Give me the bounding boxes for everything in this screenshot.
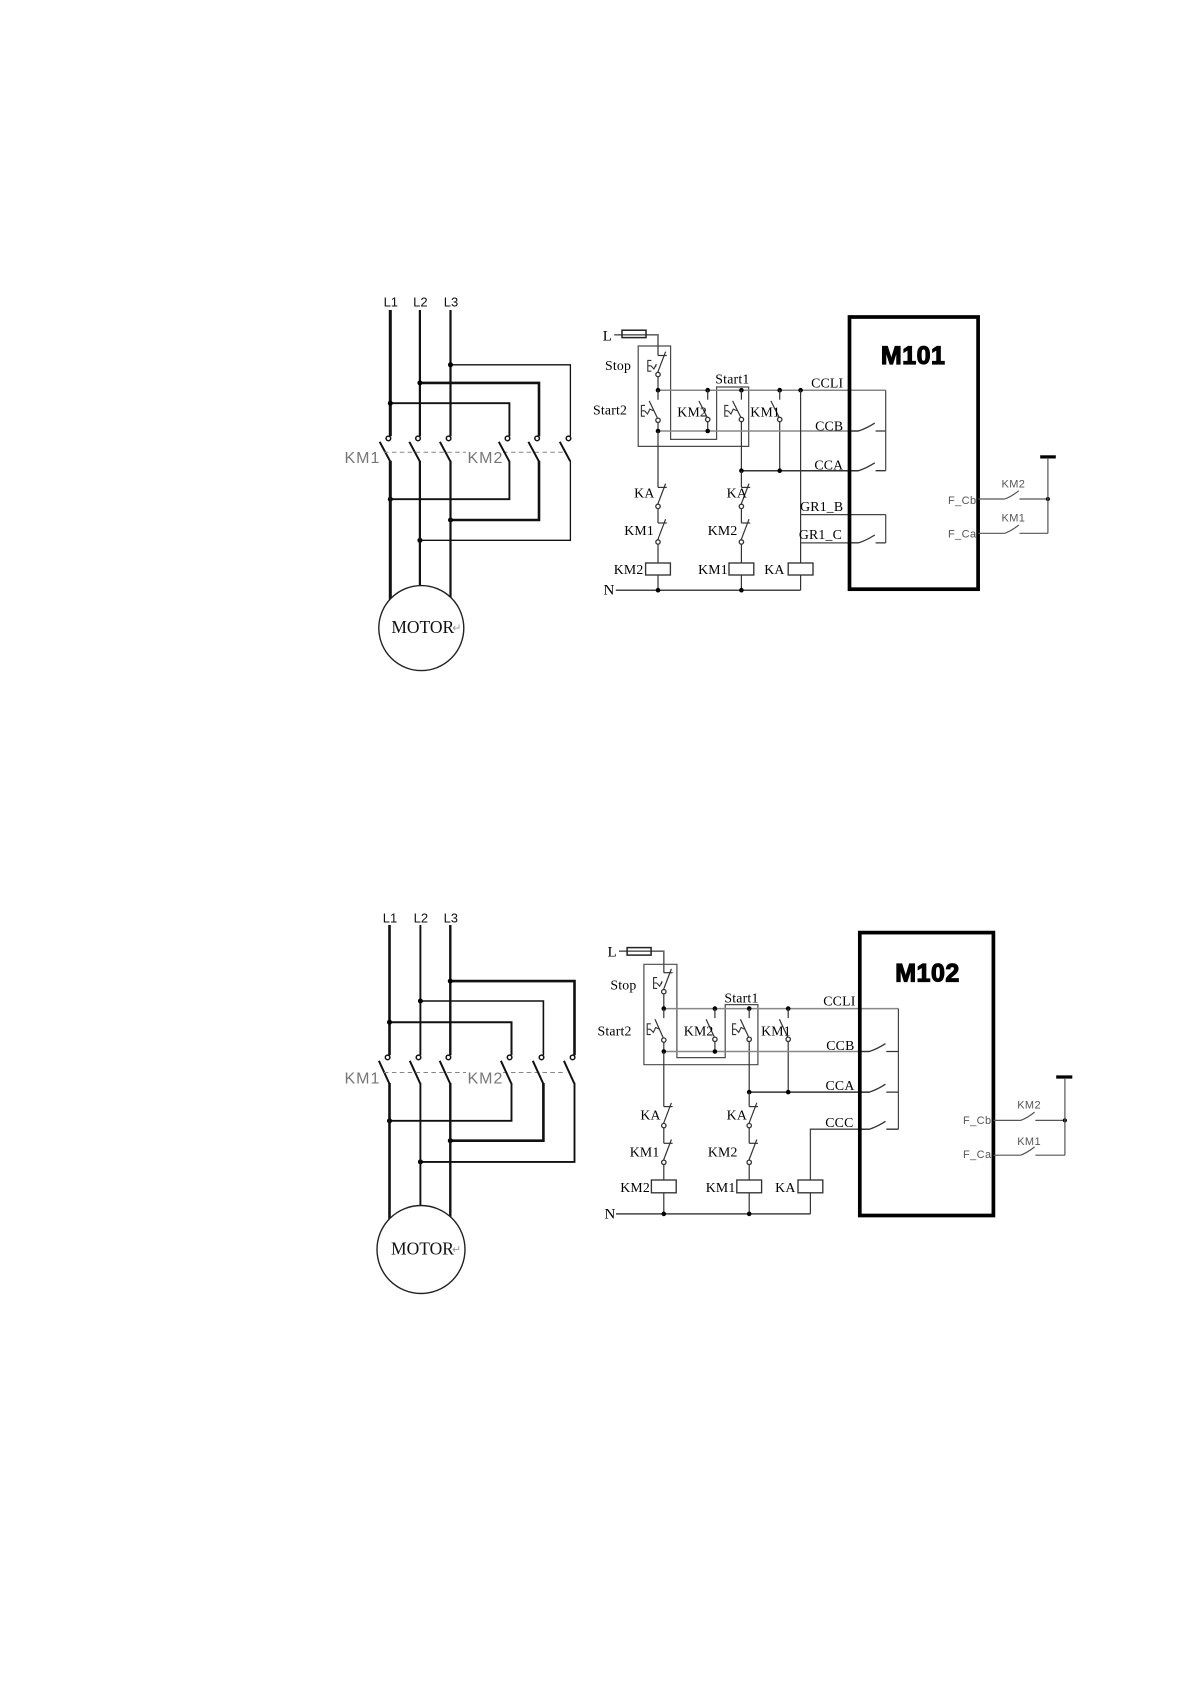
svg-text:KM1: KM1: [1017, 1136, 1041, 1148]
wire L feed (top): [614, 335, 658, 356]
controller box M102 (bottom): [860, 933, 994, 1216]
svg-text:CCA: CCA: [826, 1078, 855, 1093]
wire L1 feeder (top): [389, 310, 392, 436]
wire KM2 pole2 to W (top): [451, 461, 540, 520]
svg-text:KM2: KM2: [708, 523, 738, 538]
svg-text:KM2: KM2: [1002, 478, 1026, 490]
contact KM2 aux NO (top): [699, 390, 710, 431]
wire L1 feeder (bottom): [388, 925, 391, 1055]
switch CCB in box (top): [850, 423, 886, 431]
switch CCA in box (top): [850, 463, 886, 471]
svg-text:Start1: Start1: [724, 991, 758, 1006]
wire motor lead L1 (bottom): [388, 1083, 391, 1220]
svg-text:KM2: KM2: [468, 450, 504, 467]
svg-text:↵: ↵: [452, 622, 461, 634]
svg-text:KA: KA: [634, 486, 654, 501]
wire motor lead L1 (top): [389, 461, 392, 601]
pushbutton linkage outline (top): [638, 346, 749, 446]
svg-text:L2: L2: [414, 911, 428, 926]
svg-text:CCLI: CCLI: [823, 994, 855, 1009]
svg-text:KM1: KM1: [345, 1071, 381, 1088]
svg-text:CCC: CCC: [825, 1115, 853, 1130]
contactor KM2 main contacts (bottom): [501, 1055, 575, 1083]
switch GR1_C in box (top): [850, 535, 886, 543]
wire CCLI rail (top): [658, 389, 886, 391]
svg-text:KM1: KM1: [761, 1024, 791, 1039]
wire motor lead L2 (top): [419, 461, 421, 587]
svg-text:MOTOR: MOTOR: [391, 617, 454, 637]
switch CCC in box (bottom): [860, 1121, 899, 1129]
coil KM2 (bottom): [651, 1180, 676, 1193]
contact chain KA + KM1 NC (bottom): [662, 1052, 673, 1181]
wire L2 feeder (top): [419, 310, 421, 436]
svg-text:KA: KA: [764, 562, 784, 577]
svg-text:L2: L2: [413, 295, 427, 310]
wire CCA rail (bottom): [749, 1091, 869, 1093]
svg-text:KM1: KM1: [750, 405, 780, 420]
coil KM1 (top): [729, 563, 754, 575]
wire L feed (bottom): [619, 951, 664, 973]
wire F_Cb output (top): [978, 491, 1048, 499]
wire KM2 pole1 to U (top): [390, 461, 509, 500]
svg-text:L: L: [608, 945, 617, 961]
svg-text:KM1: KM1: [345, 450, 381, 467]
pushbutton Stop NC (bottom): [654, 969, 673, 1009]
svg-text:KA: KA: [727, 1108, 747, 1123]
wire L3 to KM2 pole3 (bottom): [450, 981, 574, 1055]
wire L2 feeder (bottom): [419, 925, 421, 1055]
svg-text:L3: L3: [444, 911, 458, 926]
wire CCC rail (bottom): [810, 1129, 869, 1180]
contact KM2 aux NO (bottom): [706, 1009, 717, 1052]
contact chain KA + KM1 NC (top): [656, 431, 667, 563]
coil KM2 (top): [646, 563, 671, 575]
wire CCB rail (bottom): [664, 1051, 870, 1053]
motor M (bottom): [377, 1206, 465, 1294]
svg-text:Start1: Start1: [715, 371, 749, 386]
wire L1 to KM2 pole1 (top): [390, 403, 509, 436]
wire CCLI rail (bottom): [664, 1008, 899, 1010]
controller box M101 (top): [850, 317, 979, 589]
pushbutton Start1 NO (top): [725, 390, 744, 471]
svg-text:N: N: [604, 583, 615, 599]
linkage dashed line (top): [384, 451, 466, 453]
svg-text:KM1: KM1: [630, 1145, 660, 1160]
wire KM2 pole3 to V (top): [420, 461, 571, 541]
svg-text:MOTOR: MOTOR: [391, 1238, 454, 1258]
svg-text:KM1: KM1: [1002, 513, 1026, 525]
svg-text:F_Cb: F_Cb: [948, 495, 977, 507]
wire KM2 pole3 to V (bottom): [420, 1083, 574, 1162]
wire motor lead L3 (top): [449, 461, 451, 599]
wire CCB rail (top): [658, 430, 859, 432]
wire N rail (bottom): [616, 1213, 810, 1215]
svg-text:KM2: KM2: [614, 562, 644, 577]
svg-text:Start2: Start2: [593, 403, 627, 418]
wire thin loop GR1 (top): [885, 515, 887, 543]
contactor KM1 main contacts (bottom): [379, 1055, 451, 1083]
svg-text:F_Cb: F_Cb: [963, 1115, 992, 1127]
svg-text:Stop: Stop: [610, 977, 636, 992]
wire L1 to KM2 pole1 (bottom): [390, 1022, 512, 1055]
svg-text:L: L: [603, 328, 612, 344]
coil KA (top): [788, 563, 813, 575]
svg-text:KM2: KM2: [684, 1024, 714, 1039]
wire L2 to KM2 pole2 (bottom): [420, 1001, 543, 1055]
contactor KM1 main contacts (top): [380, 436, 451, 461]
wire KM2 pole2 to W (bottom): [450, 1083, 543, 1141]
coil KA (bottom): [798, 1180, 823, 1193]
svg-text:L1: L1: [383, 911, 397, 926]
svg-text:CCB: CCB: [826, 1038, 854, 1053]
svg-text:KA: KA: [727, 486, 747, 501]
motor M (top): [379, 586, 464, 671]
svg-text:GR1_C: GR1_C: [799, 527, 842, 542]
pushbutton Start2 NO (bottom): [647, 1009, 666, 1052]
wire thin loop CC (top): [885, 390, 887, 471]
wire L3 feeder (bottom): [449, 925, 451, 1055]
wire KA column (top): [800, 390, 802, 563]
wire L3 to KM2 pole3 (top): [451, 365, 571, 436]
supply bar T (top): [1040, 455, 1056, 458]
svg-text:F_Ca: F_Ca: [963, 1149, 992, 1161]
pushbutton Start2 NO (top): [641, 390, 660, 431]
supply bar T (bottom): [1056, 1075, 1072, 1078]
svg-text:KM2: KM2: [1017, 1099, 1041, 1111]
svg-text:CCA: CCA: [814, 457, 843, 472]
wire F_Ca output (bottom): [993, 1147, 1065, 1155]
fuse FU (bottom): [627, 948, 651, 956]
contact chain KA + KM2 NC (top): [739, 471, 750, 563]
svg-text:CCLI: CCLI: [811, 375, 843, 390]
svg-text:CCB: CCB: [815, 419, 843, 434]
svg-text:M102: M102: [895, 959, 960, 987]
switch CCA in box (bottom): [860, 1084, 899, 1092]
wire motor lead L2 (bottom): [419, 1083, 421, 1207]
svg-text:KM2: KM2: [677, 405, 707, 420]
svg-text:KM1: KM1: [624, 523, 654, 538]
wire F_Cb output (bottom): [993, 1112, 1065, 1120]
linkage dashed line (bottom): [384, 1072, 466, 1074]
svg-text:L1: L1: [384, 295, 398, 310]
wire F_Ca output (top): [978, 525, 1048, 533]
pushbutton Start1 NO (bottom): [733, 1009, 752, 1093]
svg-text:KM2: KM2: [708, 1145, 738, 1160]
wire CCA rail (top): [741, 470, 858, 472]
svg-text:KM1: KM1: [698, 562, 728, 577]
svg-text:Stop: Stop: [605, 358, 631, 373]
wire L3 feeder (top): [449, 310, 451, 436]
svg-text:KM2: KM2: [620, 1180, 650, 1195]
svg-text:L3: L3: [444, 295, 458, 310]
coil KM1 (bottom): [737, 1180, 762, 1193]
wire N rail (top): [616, 589, 801, 591]
svg-text:F_Ca: F_Ca: [948, 529, 977, 541]
svg-text:KM2: KM2: [468, 1071, 504, 1088]
svg-text:KA: KA: [775, 1180, 795, 1195]
svg-text:↵: ↵: [452, 1244, 461, 1256]
wire GR1_B rail (top): [801, 514, 886, 516]
pushbutton linkage outline (bottom): [644, 964, 758, 1064]
fuse FU (top): [622, 330, 646, 337]
svg-text:M101: M101: [881, 342, 946, 370]
svg-text:KM1: KM1: [706, 1180, 736, 1195]
wire GR1_C rail (top): [801, 542, 859, 544]
pushbutton Stop NC (top): [648, 352, 667, 391]
wire KM2 pole1 to U (bottom): [390, 1083, 512, 1121]
contact chain KA + KM2 NC (bottom): [747, 1092, 758, 1180]
svg-text:KA: KA: [640, 1108, 660, 1123]
contact KM1 aux NO (bottom): [779, 1009, 790, 1093]
wire motor lead L3 (bottom): [449, 1083, 451, 1218]
wire thin loop CC (bottom): [897, 1009, 899, 1130]
switch CCB in box (bottom): [860, 1044, 899, 1052]
contact KM1 aux NO (top): [771, 390, 782, 471]
svg-text:GR1_B: GR1_B: [800, 499, 843, 514]
svg-text:N: N: [605, 1206, 616, 1222]
contactor KM2 main contacts (top): [499, 436, 571, 461]
wire L2 to KM2 pole2 (top): [420, 383, 539, 436]
svg-text:Start2: Start2: [598, 1024, 632, 1039]
